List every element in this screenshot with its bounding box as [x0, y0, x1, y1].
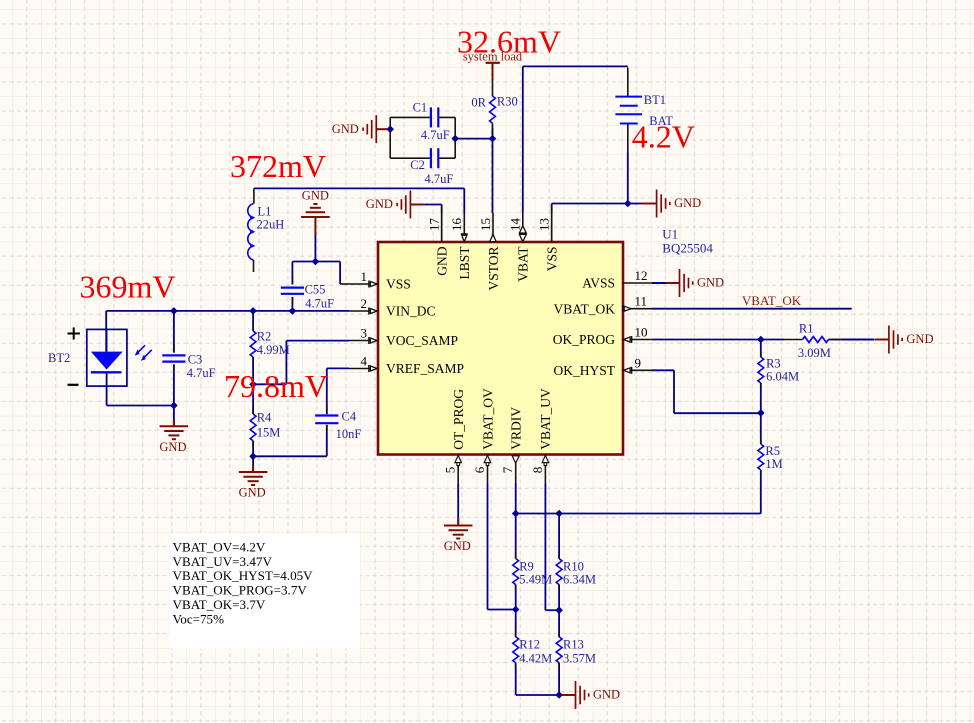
- svg-text:3.57M: 3.57M: [563, 651, 596, 665]
- svg-text:16: 16: [449, 218, 464, 232]
- svg-text:4.99M: 4.99M: [257, 343, 290, 357]
- svg-text:R3: R3: [766, 356, 781, 370]
- svg-text:11: 11: [635, 294, 648, 309]
- svg-text:C4: C4: [342, 410, 357, 424]
- svg-text:372mV: 372mV: [230, 148, 326, 184]
- svg-text:6: 6: [472, 466, 487, 473]
- svg-text:4.7uF: 4.7uF: [305, 297, 334, 311]
- svg-text:C2: C2: [410, 158, 425, 172]
- svg-text:OK_HYST: OK_HYST: [553, 363, 615, 378]
- svg-text:VBAT_OV=4.2V: VBAT_OV=4.2V: [173, 540, 266, 555]
- svg-text:C1: C1: [413, 100, 428, 114]
- svg-text:12: 12: [635, 268, 648, 283]
- svg-text:GND: GND: [332, 122, 359, 136]
- svg-text:15: 15: [478, 218, 493, 231]
- svg-text:BQ25504: BQ25504: [662, 240, 713, 255]
- svg-text:C3: C3: [188, 352, 203, 366]
- svg-text:GND: GND: [302, 189, 329, 203]
- svg-text:4.42M: 4.42M: [519, 651, 552, 665]
- svg-text:3.09M: 3.09M: [798, 346, 831, 360]
- svg-text:79.8mV: 79.8mV: [224, 368, 328, 404]
- svg-text:VREF_SAMP: VREF_SAMP: [386, 361, 464, 376]
- svg-text:VBAT_OK_HYST=4.05V: VBAT_OK_HYST=4.05V: [173, 568, 314, 583]
- svg-text:VBAT_UV: VBAT_UV: [538, 388, 553, 450]
- svg-text:GND: GND: [906, 332, 933, 346]
- svg-text:4: 4: [361, 354, 368, 369]
- svg-text:VBAT_UV=3.47V: VBAT_UV=3.47V: [173, 554, 273, 569]
- svg-text:AVSS: AVSS: [582, 276, 615, 291]
- svg-text:VBAT_OK=3.7V: VBAT_OK=3.7V: [173, 597, 266, 612]
- svg-text:13: 13: [537, 218, 552, 231]
- svg-text:Voc=75%: Voc=75%: [173, 611, 225, 626]
- svg-text:GND: GND: [444, 539, 471, 553]
- svg-text:BT1: BT1: [644, 93, 666, 107]
- svg-text:VBAT_OV: VBAT_OV: [480, 388, 495, 450]
- svg-text:GND: GND: [697, 276, 724, 290]
- svg-text:R9: R9: [519, 559, 534, 573]
- svg-text:5: 5: [443, 467, 458, 474]
- svg-text:8: 8: [530, 467, 545, 474]
- svg-text:L1: L1: [258, 204, 272, 218]
- svg-text:4.7uF: 4.7uF: [425, 172, 454, 186]
- svg-text:17: 17: [427, 218, 442, 232]
- svg-text:VBAT_OK: VBAT_OK: [742, 293, 802, 308]
- svg-text:BT2: BT2: [48, 351, 70, 365]
- svg-text:C55: C55: [305, 282, 326, 296]
- svg-text:VIN_DC: VIN_DC: [386, 304, 436, 319]
- svg-text:14: 14: [508, 218, 523, 232]
- svg-text:R2: R2: [257, 329, 272, 343]
- svg-text:4.7uF: 4.7uF: [187, 366, 216, 380]
- svg-text:OT_PROG: OT_PROG: [451, 389, 466, 450]
- svg-text:U1: U1: [662, 227, 678, 242]
- svg-text:R13: R13: [563, 638, 584, 652]
- svg-text:1: 1: [361, 269, 368, 284]
- svg-text:VBAT_OK_PROG=3.7V: VBAT_OK_PROG=3.7V: [173, 583, 308, 598]
- svg-text:R1: R1: [799, 321, 814, 335]
- svg-text:369mV: 369mV: [80, 269, 176, 305]
- svg-text:VSS: VSS: [545, 247, 560, 272]
- svg-text:VOC_SAMP: VOC_SAMP: [386, 333, 458, 348]
- svg-text:1M: 1M: [765, 457, 782, 471]
- svg-text:6.04M: 6.04M: [766, 370, 799, 384]
- svg-text:10: 10: [635, 325, 648, 340]
- svg-text:GND: GND: [593, 688, 620, 702]
- svg-text:R30: R30: [497, 95, 518, 109]
- svg-text:7: 7: [500, 466, 515, 473]
- svg-text:2: 2: [361, 296, 368, 311]
- svg-text:VBAT: VBAT: [516, 246, 531, 282]
- svg-text:VRDIV: VRDIV: [509, 407, 524, 450]
- svg-text:R10: R10: [563, 559, 584, 573]
- svg-text:GND: GND: [435, 246, 450, 275]
- svg-text:R4: R4: [257, 411, 272, 425]
- svg-text:5.49M: 5.49M: [519, 572, 552, 586]
- svg-text:32.6mV: 32.6mV: [457, 23, 561, 59]
- svg-text:10nF: 10nF: [336, 427, 362, 441]
- svg-text:4.2V: 4.2V: [632, 118, 695, 154]
- svg-text:GND: GND: [674, 196, 701, 210]
- svg-text:6.34M: 6.34M: [563, 572, 596, 586]
- svg-text:VSS: VSS: [386, 277, 411, 292]
- svg-text:LBST: LBST: [457, 246, 472, 280]
- svg-text:GND: GND: [239, 486, 266, 500]
- svg-text:GND: GND: [159, 440, 186, 454]
- svg-text:22uH: 22uH: [257, 218, 285, 232]
- svg-text:3: 3: [361, 326, 368, 341]
- svg-text:R5: R5: [765, 444, 780, 458]
- svg-text:9: 9: [635, 355, 642, 370]
- svg-text:VBAT_OK: VBAT_OK: [553, 301, 615, 316]
- svg-text:OK_PROG: OK_PROG: [553, 332, 616, 347]
- svg-text:VSTOR: VSTOR: [486, 247, 501, 291]
- svg-text:15M: 15M: [257, 426, 281, 440]
- svg-text:GND: GND: [366, 197, 393, 211]
- svg-text:0R: 0R: [471, 95, 486, 109]
- svg-text:4.7uF: 4.7uF: [421, 128, 450, 142]
- svg-text:R12: R12: [519, 638, 540, 652]
